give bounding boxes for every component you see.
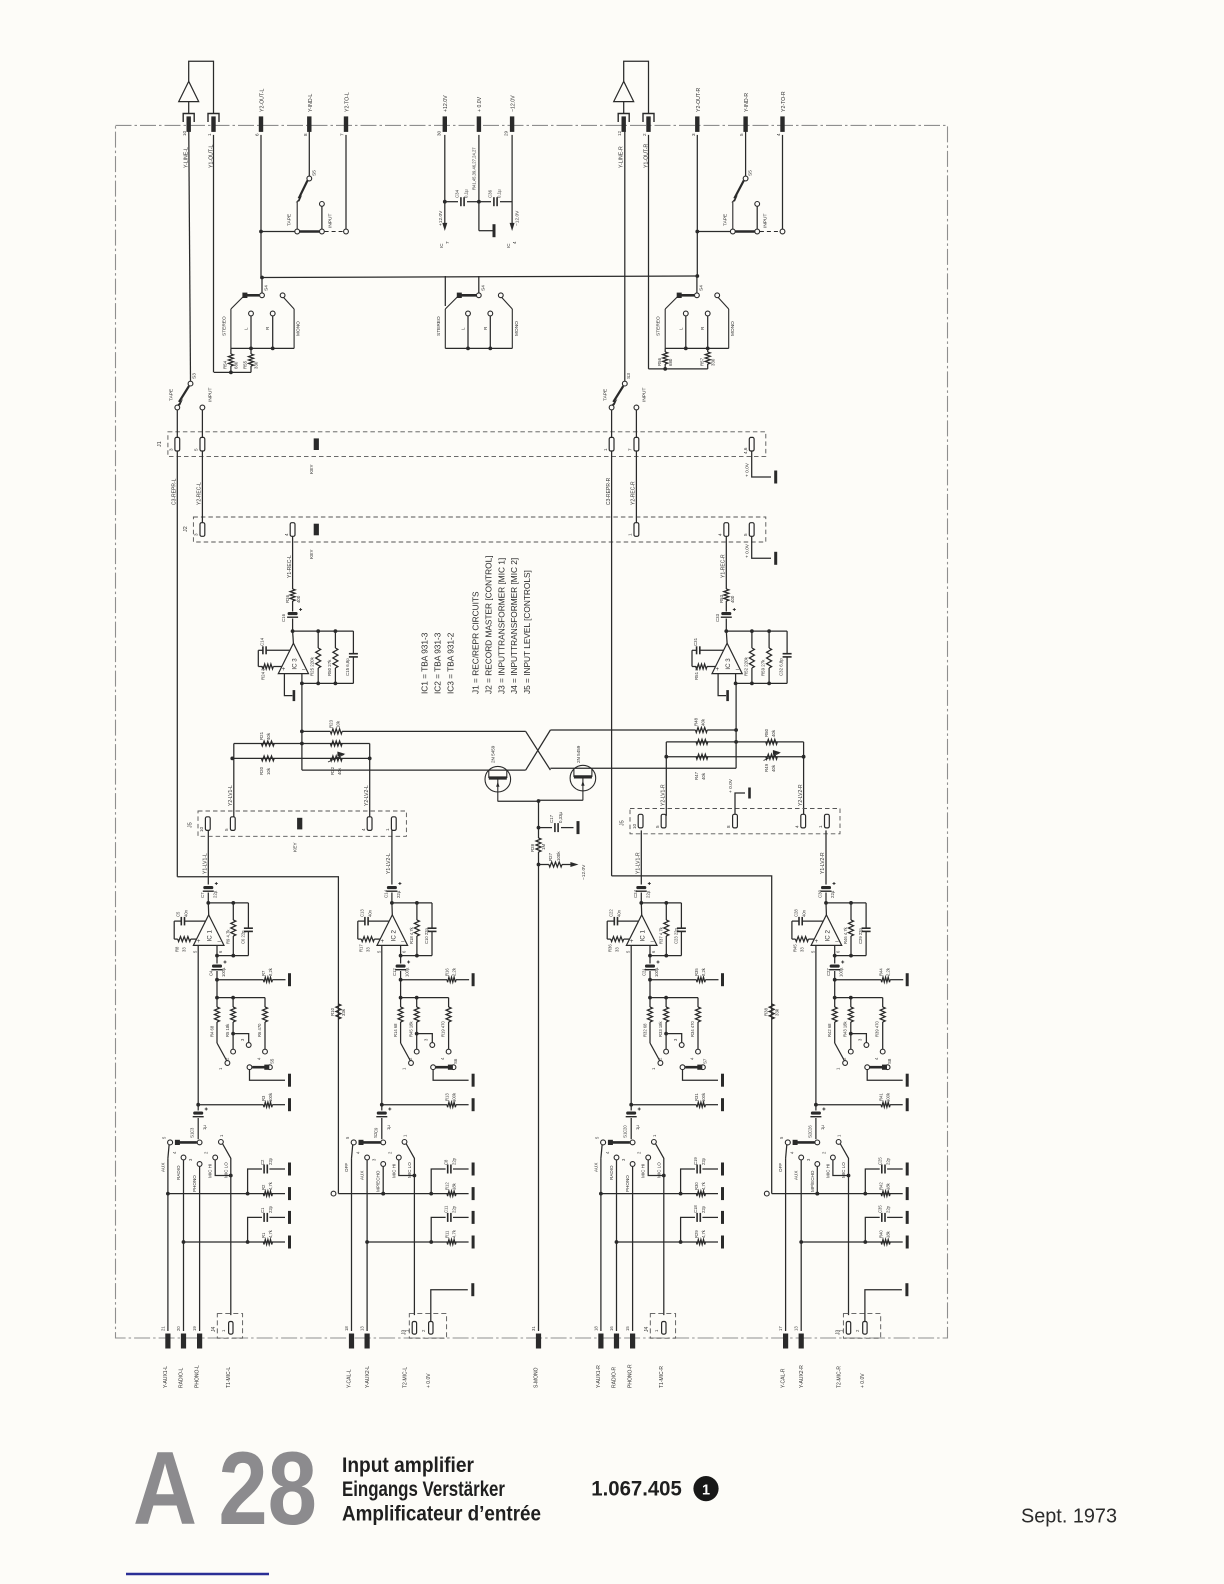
svg-text:MIC LO: MIC LO (223, 1162, 228, 1178)
wire S3-L TAPE to J1 pin3 (176, 410, 178, 437)
transistor Q1 2N5459 (left) (485, 766, 511, 792)
svg-text:33: 33 (365, 947, 370, 952)
wire OFF line [B] (351, 1158, 353, 1331)
svg-text:R12: R12 (445, 1182, 450, 1190)
svg-text:C35: C35 (878, 1205, 883, 1213)
svg-text:MIC LO: MIC LO (841, 1162, 846, 1178)
svg-text:4: 4 (512, 241, 517, 244)
bottom pin 18 Y-AUX1-R [C] (598, 1334, 603, 1349)
svg-text:+ 0.0V: + 0.0V (745, 462, 751, 477)
svg-text:R3: R3 (261, 1095, 266, 1101)
wire J5 to IC 2 input [B] (391, 830, 393, 884)
svg-text:S3: S3 (626, 373, 632, 379)
capacitor C18 22p [C] (681, 1217, 695, 1242)
S4 bottom rail (left) (231, 347, 294, 349)
wire tape-monitor trunk left (177, 877, 338, 1194)
blue footer line (126, 1573, 269, 1576)
capacitor C20 1µ [C] (626, 1112, 636, 1115)
junction R5 bottom [D] (849, 1032, 853, 1036)
wire IC 3 output (right) (735, 674, 737, 684)
arrow -12V to IC supply (510, 223, 515, 231)
svg-text:5: 5 (194, 448, 199, 451)
svg-text:R8: R8 (175, 946, 180, 952)
S5-L dashed link to Y2-TO-L (325, 231, 344, 233)
terminal pin 1 Y1-OUT-L (211, 116, 215, 131)
svg-text:Y1-REC-R: Y1-REC-R (721, 554, 727, 578)
svg-text:R34 470: R34 470 (690, 1020, 695, 1037)
resistor R5 18k [A] (232, 998, 234, 1007)
svg-text:4: 4 (718, 533, 723, 536)
resistor R16 2,2k [B] (401, 979, 447, 981)
resistor R41 100k [D] (816, 1104, 881, 1106)
svg-text:PHONO: PHONO (625, 1175, 630, 1192)
svg-text:C18: C18 (693, 1205, 698, 1213)
wire RADIO line [C] (616, 1160, 618, 1331)
wire output to divider [C] (649, 980, 651, 998)
resistor R18 4,7k [B] (416, 903, 418, 920)
svg-text:C25: C25 (878, 1157, 883, 1165)
svg-text:C22: C22 (609, 909, 614, 917)
wire S3-L INPUT to J1 pin5 (201, 410, 203, 437)
svg-text:Y2-OUT-R: Y2-OUT-R (696, 88, 702, 112)
bottom rail parallel network (right) (736, 682, 788, 684)
svg-text:J4: J4 (644, 1327, 650, 1333)
svg-text:R1: R1 (261, 1232, 266, 1238)
connector J1 (dashed box) (168, 432, 766, 457)
resistor R30 [C] (696, 1191, 705, 1196)
svg-text:R50 27k: R50 27k (327, 659, 332, 676)
wire IC 2 output [B] (400, 945, 402, 963)
svg-text:MP/ECHO: MP/ECHO (810, 1170, 815, 1192)
bottom pin 15 PHONO-R [C] (630, 1334, 635, 1349)
switch contact 1 [C] (658, 1061, 663, 1066)
switch contact 4 [B] (446, 1049, 451, 1054)
svg-text:C3-REPR-R: C3-REPR-R (606, 477, 612, 505)
S4 stereo arm diagonal (right) (665, 297, 677, 309)
wire Y1-REC input to IC 3 (left) (292, 536, 294, 585)
capacitor C22 40n [C] (618, 920, 639, 922)
S5-R INPUT contact (755, 229, 760, 234)
svg-text:33: 33 (182, 947, 187, 952)
svg-text:C3: C3 (190, 1127, 195, 1133)
junction C17 (537, 826, 541, 830)
junction R3 [A] (196, 1103, 200, 1107)
ground J2 (774, 552, 777, 565)
op-amp IC 2 [B] (377, 915, 408, 946)
bottom rail feedback [A] (217, 955, 248, 957)
svg-text:R18 4,7k: R18 4,7k (409, 926, 414, 944)
wire loop from amp L output to Y1-OUT-L terminal (189, 61, 214, 113)
svg-text:100k: 100k (886, 1092, 891, 1102)
ground R12 [B] (472, 1187, 475, 1200)
contact 5 lead (AUX) [A] (168, 1140, 173, 1145)
capacitor C27 100µ [D] (830, 965, 840, 968)
svg-text:40n: 40n (801, 909, 806, 917)
svg-text:PHONO-L: PHONO-L (195, 1365, 201, 1388)
svg-text:+: + (716, 667, 720, 673)
rail 2 right matrix (666, 756, 803, 758)
svg-text:400: 400 (730, 595, 735, 603)
J5-L pin 4 (367, 817, 372, 831)
svg-text:OFF: OFF (778, 1163, 783, 1172)
svg-text:R49: R49 (764, 763, 769, 772)
connector J3 (dashed box) [D] (843, 1314, 880, 1339)
svg-text:R35: R35 (694, 968, 699, 976)
capacitor C14 40n feedback (left) (266, 649, 290, 651)
wire J5 to IC 1 input [C] (640, 830, 642, 884)
svg-text:R57: R57 (699, 357, 704, 366)
wire Y1-REC input to IC 3 (right) (725, 536, 727, 585)
svg-text:R41,45,39,46,27,24,27: R41,45,39,46,27,24,27 (472, 147, 477, 190)
ground J3 pin2 [B] (471, 1283, 474, 1296)
svg-text:C36: C36 (488, 189, 493, 198)
junction R5 bottom [B] (415, 1032, 419, 1036)
wire mono bus to middle S4 stereo drop (444, 276, 446, 306)
svg-text:KEY: KEY (309, 549, 315, 559)
ground R29 [C] (721, 1236, 724, 1249)
svg-text:4: 4 (284, 533, 289, 536)
switch S1 pivot [A] (197, 1140, 202, 1145)
svg-text:A 28: A 28 (133, 1431, 317, 1547)
switch contact 1 lead [C] (650, 1043, 660, 1061)
terminal pin 29 -12.0V (510, 116, 514, 131)
switch S1 bar [A] (177, 1141, 197, 1144)
svg-text:C28: C28 (793, 909, 798, 917)
ground C25 [D] (906, 1163, 909, 1176)
svg-text:4,7k: 4,7k (452, 1229, 457, 1238)
J1 pin 4,6 (749, 437, 754, 451)
svg-text:R16: R16 (445, 968, 450, 976)
wire S-MONO down (538, 865, 540, 1332)
rail R30 [C] (601, 1193, 718, 1195)
contact 2 (MIC HI) [C] (646, 1155, 651, 1160)
wire Y2-TO-R drop (782, 135, 784, 229)
svg-text:AUX: AUX (593, 1163, 598, 1172)
svg-text:J2 = RECORD MASTER [CONTROL]: J2 = RECORD MASTER [CONTROL] (484, 555, 494, 694)
mono bus horizontal (262, 276, 697, 278)
divider top rail [C] (650, 997, 698, 999)
svg-text:−12.0V: −12.0V (581, 864, 587, 880)
J2 pin 1 (634, 523, 639, 537)
resistor R54 680 (230, 348, 232, 354)
svg-text:R46 4,7k: R46 4,7k (843, 926, 848, 944)
svg-text:S5: S5 (748, 170, 754, 176)
svg-text:5: 5 (739, 133, 744, 136)
svg-text:R21: R21 (259, 731, 264, 740)
wire MIC HI to mic-lo [D] (833, 1160, 849, 1175)
S4 R contact (left) (270, 311, 275, 316)
capacitor C9 1µ [B] (377, 1112, 387, 1115)
svg-text:IC1 = TBA 931-3: IC1 = TBA 931-3 (420, 632, 430, 694)
svg-text:0,33µ: 0,33µ (558, 811, 563, 823)
svg-text:+: + (197, 939, 201, 945)
wire Y2-REC-R (J1 pin7 to J2 pin1) (635, 451, 637, 523)
resistor R4 68 [A] (216, 998, 218, 1007)
svg-text:Input amplifier: Input amplifier (342, 1454, 474, 1477)
capacitor C7 22µ [A] (203, 886, 213, 889)
S4 bottom rail (middle) (445, 347, 512, 349)
buffer amplifier triangle (line amp R) (614, 81, 634, 101)
wire Y1-OUT-L down (213, 135, 215, 373)
svg-text:IC3 = TBA 931-2: IC3 = TBA 931-2 (446, 632, 456, 694)
svg-text:10: 10 (182, 130, 187, 136)
wire OFF line [D] (785, 1158, 787, 1331)
rail R12 [B] (383, 1193, 468, 1195)
svg-text:2,2k: 2,2k (701, 967, 706, 976)
ground C19 [C] (721, 1163, 724, 1176)
J5-R pin 5 (661, 814, 666, 828)
ground C1 [A] (288, 1211, 291, 1224)
wire RADIO line [A] (183, 1160, 185, 1331)
svg-text:R30: R30 (694, 1182, 699, 1190)
junction IC 3 input (left) (291, 629, 295, 633)
ground R2 [A] (288, 1187, 291, 1200)
svg-text:C7: C7 (200, 892, 205, 898)
J5-R pin 8 (733, 814, 738, 828)
svg-text:R33 18k: R33 18k (658, 1020, 663, 1037)
svg-text:4,6: 4,6 (743, 447, 748, 454)
svg-text:5: 5 (743, 533, 748, 536)
resistor R46a (696, 739, 708, 744)
contact 5 lead (OFF) [D] (785, 1140, 790, 1145)
svg-text:Y1-LV1-L: Y1-LV1-L (202, 853, 208, 874)
svg-text:R40: R40 (879, 1230, 884, 1238)
resistor R59 27k (right) (768, 631, 770, 648)
svg-text:1: 1 (818, 825, 823, 828)
terminal bracket Y1-OUT-R (643, 114, 654, 123)
rail R42 [D] (817, 1193, 902, 1195)
wire FET source bus down (538, 801, 540, 828)
svg-text:R9 4,7k: R9 4,7k (225, 929, 230, 944)
svg-text:680: 680 (234, 361, 239, 369)
terminal pin 3 Y2-OUT-R (695, 116, 699, 131)
svg-text:RADIO-L: RADIO-L (179, 1368, 185, 1389)
terminal pin +0.0V (477, 116, 481, 131)
wire MIC HI to mic-lo [C] (648, 1160, 664, 1175)
svg-text:IC: IC (439, 243, 444, 248)
switch contact 1 [B] (409, 1061, 414, 1066)
resistor R48 40k from crossover (550, 729, 695, 731)
contact 3 (MP/ECHO) [B] (381, 1162, 386, 1167)
svg-text:C11: C11 (444, 1205, 449, 1213)
switch contact 3 [B] (430, 1043, 435, 1048)
wire IC3-L output down (301, 683, 303, 770)
capacitor C15 6,8p (left) (352, 631, 354, 653)
S4 MONO contact (middle) (498, 293, 503, 298)
wire Y2-LV1-R riser (665, 742, 667, 816)
wire R5 to contact 3 [B] (417, 1034, 433, 1043)
ground S7 [C] (721, 1074, 724, 1087)
wire R5 to contact 3 [D] (851, 1034, 867, 1043)
svg-text:100k: 100k (452, 1092, 457, 1102)
svg-text:S5: S5 (270, 1058, 275, 1064)
switch contact 1 lead [B] (401, 1043, 411, 1061)
svg-text:2N 5459: 2N 5459 (576, 745, 581, 763)
svg-text:Y2-REC-L: Y2-REC-L (197, 482, 203, 505)
svg-text:−12.0V: −12.0V (515, 210, 521, 226)
S5-R dashed link to Y2-TO-R (760, 231, 780, 233)
svg-text:RADIO-R: RADIO-R (612, 1367, 618, 1389)
S4 R contact (middle) (488, 311, 493, 316)
resistor R47 40k (696, 754, 708, 759)
switch S2 bar [D] (795, 1141, 815, 1144)
switch S5-L arm (307, 176, 312, 181)
svg-text:T1-MIC-L: T1-MIC-L (226, 1367, 232, 1388)
resistor R23 10k to crossover (302, 730, 331, 732)
svg-text:330: 330 (254, 361, 259, 369)
resistor R49 40k (trim) (766, 754, 778, 759)
svg-text:IC2 = TBA 931-3: IC2 = TBA 931-3 (433, 632, 443, 694)
svg-text:−12.0V: −12.0V (510, 95, 516, 112)
node circle left monitor feed (331, 1191, 336, 1196)
svg-text:C3-REPR-L: C3-REPR-L (172, 478, 178, 505)
svg-text:IC: IC (506, 243, 511, 248)
svg-text:C34: C34 (455, 189, 460, 198)
capacitor C3 1µ [A] (193, 1112, 203, 1115)
svg-text:1µ: 1µ (635, 1125, 640, 1130)
svg-text:C19: C19 (693, 1157, 698, 1165)
svg-text:1: 1 (628, 533, 633, 536)
svg-text:R7: R7 (261, 970, 266, 976)
svg-text:J4: J4 (211, 1327, 217, 1333)
bottom pin 18 Y-CAL-L [B] (349, 1334, 354, 1349)
wire J5-R pin8 to ground (735, 793, 745, 814)
svg-text:Y2-LV2-R: Y2-LV2-R (798, 784, 804, 806)
svg-text:J2: J2 (183, 526, 189, 532)
node circle right monitor feed (764, 1191, 769, 1196)
switch contact 2 [B] (416, 1034, 418, 1049)
S5-R TAPE contact (730, 229, 735, 234)
svg-text:C12: C12 (392, 968, 397, 976)
svg-text:INPUT: INPUT (763, 214, 769, 228)
svg-text:C23 22p: C23 22p (673, 927, 678, 944)
switch contact 1 [A] (225, 1061, 230, 1066)
svg-text:22p: 22p (886, 1205, 891, 1213)
wire Y2-OUT-L drop (260, 135, 262, 232)
svg-text:330: 330 (710, 358, 715, 366)
svg-text:C17: C17 (549, 814, 554, 823)
bottom rail feedback [B] (401, 955, 432, 957)
ground IC 3 pin5 (right) (726, 690, 729, 701)
svg-text:100µ: 100µ (839, 967, 844, 977)
svg-text:4,7k: 4,7k (701, 1229, 706, 1238)
svg-text:PHONO-R: PHONO-R (628, 1364, 634, 1388)
ground R13 [B] (472, 1098, 475, 1111)
svg-text:MIC HI: MIC HI (825, 1164, 830, 1178)
svg-text:STEREO: STEREO (221, 316, 227, 336)
wire AUX line [A] (167, 1158, 169, 1331)
wire J3 pin2 to ground [B] (431, 1290, 468, 1322)
svg-text:31: 31 (531, 1326, 536, 1331)
ground R41 [D] (906, 1098, 909, 1111)
svg-text:IC 2: IC 2 (824, 929, 831, 941)
switch contact 3 [A] (246, 1043, 251, 1048)
svg-text:100k: 100k (701, 1092, 706, 1102)
svg-text:100µ: 100µ (654, 967, 659, 977)
svg-text:MONO: MONO (730, 321, 736, 336)
wire Y-LINE-R to S3 pivot (624, 122, 626, 381)
wire MIC HI to mic-lo [B] (399, 1160, 415, 1175)
wire mono bus junction right S4 (695, 274, 699, 278)
crossover diagonal B (526, 730, 551, 770)
svg-text:40k: 40k (701, 772, 706, 780)
bottom pin 13 Y-AUX2-R [D] (799, 1334, 804, 1349)
switch S1 pivot [C] (630, 1140, 635, 1145)
wire J5 to IC 2 input [D] (825, 830, 827, 884)
wire Y-LINE-L to S3 pivot (189, 122, 191, 381)
svg-text:1: 1 (702, 1483, 710, 1499)
terminal pin 5 Y-IND-R (743, 116, 747, 131)
svg-text:S6: S6 (453, 1058, 458, 1064)
svg-text:33: 33 (799, 947, 804, 952)
wire C3-REPR-R (J1 pin1 down to mono trunk) (611, 451, 613, 876)
resistor R55 330 (250, 348, 252, 354)
wire loop from amp R output to Y1-OUT-R terminal (624, 61, 649, 113)
svg-text:6: 6 (255, 133, 260, 136)
svg-text:100k: 100k (268, 1092, 273, 1102)
resistor R32 68 [C] (649, 998, 651, 1007)
svg-text:Y2-LV2-L: Y2-LV2-L (364, 785, 370, 806)
wire monitor feed to S2-R (772, 1193, 818, 1195)
capacitor C13 40n [B] (368, 920, 389, 922)
S3-R TAPE contact (609, 405, 614, 410)
svg-text:8: 8 (726, 825, 731, 828)
top rail feedback [D] (826, 902, 866, 904)
switch S4 pivot (right) (695, 293, 700, 298)
transistor Q2 2N5459 (right) (570, 765, 596, 791)
J1 pin 5 (200, 437, 205, 451)
J3 pin 1 [D] (846, 1322, 850, 1335)
svg-text:40k: 40k (266, 732, 271, 740)
svg-text:R47: R47 (694, 771, 699, 780)
svg-text:Y-CAL-R: Y-CAL-R (781, 1368, 787, 1388)
capacitor C8 22p [B] (431, 1169, 445, 1194)
svg-text:4,7k: 4,7k (268, 1181, 273, 1190)
capacitor C14 22µ [B] (387, 886, 397, 889)
svg-text:19: 19 (192, 1326, 197, 1331)
junction IC3-L matrix top (300, 742, 304, 746)
ground R3 [A] (288, 1098, 291, 1111)
S4 R contact (right) (705, 311, 710, 316)
svg-text:C31: C31 (693, 637, 698, 646)
svg-text:3: 3 (194, 533, 199, 536)
svg-text:40k: 40k (701, 718, 706, 726)
svg-text:40k: 40k (337, 767, 342, 775)
switch S4 pivot (left) (260, 293, 265, 298)
wire monitor row L (261, 231, 295, 233)
svg-text:+ 0.0V: + 0.0V (728, 778, 734, 793)
svg-text:33k: 33k (341, 1008, 346, 1016)
svg-text:R42: R42 (879, 1182, 884, 1190)
svg-text:R39 470: R39 470 (875, 1020, 880, 1037)
J5-R pin 1 (825, 814, 830, 828)
svg-text:STEREO: STEREO (656, 316, 662, 336)
svg-text:Y-LINE-R: Y-LINE-R (619, 146, 625, 168)
ground J1 (774, 471, 777, 484)
svg-text:J1 = REC/REPR CIRCUITS: J1 = REC/REPR CIRCUITS (471, 591, 481, 694)
resistor R53 400 (right) (725, 585, 727, 589)
svg-text:1µ: 1µ (820, 1125, 825, 1130)
resistor R42 [D] (881, 1191, 890, 1196)
svg-text:C1: C1 (260, 1207, 265, 1213)
svg-text:+: + (630, 939, 634, 945)
S5-L TAPE contact (295, 229, 300, 234)
svg-text:R6 470: R6 470 (257, 1023, 262, 1037)
junction IC 1 input [A] (206, 901, 210, 905)
terminal pin 10 Y-LINE-L (187, 116, 191, 131)
resistor R50 27k (left) (334, 631, 336, 648)
capacitor C11 22p [B] (431, 1217, 445, 1242)
